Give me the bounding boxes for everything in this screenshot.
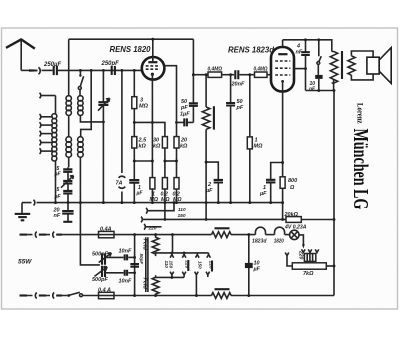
svg-text:µF: µF: [259, 191, 267, 197]
wire gang bottom: [105, 272, 124, 274]
svg-text:110: 110: [178, 207, 186, 213]
capacitor 50pF a: [192, 39, 194, 103]
svg-text:RENS 1820: RENS 1820: [110, 44, 151, 54]
svg-text:RENS 1823d: RENS 1823d: [228, 45, 275, 55]
wire 1uF link: [271, 163, 283, 180]
wire heater tap line: [143, 218, 286, 220]
resistor mains dropper top: [212, 232, 232, 238]
svg-text:110: 110: [164, 261, 169, 269]
heater 1820: [266, 234, 275, 236]
node rail 80: [79, 201, 82, 204]
wire tap stub a: [42, 95, 56, 97]
ground: [21, 203, 23, 214]
node 3Mohm top: [133, 69, 136, 72]
fork board a: [302, 249, 306, 253]
plug ground: [34, 200, 35, 206]
wire signal line2: [193, 74, 208, 76]
resistor 0,2Mohm a: [162, 178, 167, 189]
wire tap stub c: [42, 124, 53, 126]
capacitor 10nF a: [125, 254, 127, 260]
wire screen column down: [333, 91, 335, 296]
transformer core: [341, 51, 343, 79]
tube1 cathode: [151, 73, 154, 76]
wire selector top: [156, 251, 209, 254]
wire coil bottoms: [69, 157, 81, 203]
svg-text:pF: pF: [54, 171, 62, 177]
node coil tap: [90, 69, 93, 72]
svg-text:0,4MΩ: 0,4MΩ: [208, 67, 223, 73]
svg-text:kΩ: kΩ: [180, 144, 188, 150]
svg-text:4V 0,23A: 4V 0,23A: [284, 224, 306, 230]
svg-text:µF: µF: [253, 267, 261, 273]
fork sel up b: [182, 272, 186, 278]
wire ground rail: [22, 202, 284, 204]
svg-text:München LG: München LG: [349, 129, 373, 210]
tube U2 RENS 1823d: [271, 47, 294, 92]
wire lamp out: [299, 235, 303, 245]
svg-text:1820: 1820: [274, 238, 284, 244]
node tuner top: [102, 69, 105, 72]
fork sel up c: [195, 272, 199, 296]
capacitor 10uF electrolytic: [248, 235, 250, 296]
antenna coil L1: [55, 96, 57, 115]
capacitor 50pF b: [230, 75, 232, 103]
svg-text:10nF: 10nF: [119, 249, 132, 255]
wire antenna stem: [20, 39, 22, 70]
wire antenna lead: [21, 69, 32, 71]
resistor 20kohm g2: [174, 137, 179, 148]
wire seg2: [165, 160, 177, 162]
transformer T1 secondary: [348, 56, 355, 75]
plug tap b: [40, 114, 41, 120]
svg-text:20kΩ: 20kΩ: [283, 212, 298, 218]
fork board c: [315, 249, 319, 253]
wire tube1 anode pin: [152, 39, 154, 61]
capacitor 20nF mains: [67, 203, 69, 211]
node rail 68: [67, 201, 70, 204]
switch tone: [318, 40, 320, 57]
capacitor 50pF pad: [134, 235, 136, 296]
resistor 0,4Mohm a: [208, 72, 222, 77]
resistor 1Mohm grid2: [249, 75, 251, 137]
plug tap c: [40, 122, 41, 128]
capacitor 10nF b: [125, 270, 127, 276]
resistor field bottom: [152, 275, 159, 295]
tap 220 stub: [146, 226, 162, 228]
svg-text:220: 220: [148, 225, 157, 231]
wire tube1 grid lead: [163, 66, 176, 123]
plug tap f: [40, 148, 41, 154]
svg-text:0,4A: 0,4A: [100, 227, 112, 233]
svg-text:1823d: 1823d: [252, 238, 267, 244]
speaker: [367, 57, 379, 74]
svg-text:150: 150: [198, 261, 203, 269]
resistor 20kohm: [286, 217, 301, 223]
wire selector bottom: [156, 276, 185, 278]
resistor field top: [152, 235, 159, 257]
node fuse top: [120, 69, 123, 72]
svg-text:pF: pF: [180, 105, 188, 111]
node rail right: [205, 201, 208, 204]
capacitor 1uF grid: [177, 121, 194, 123]
svg-text:800: 800: [288, 178, 297, 184]
svg-text:0,4 A: 0,4 A: [98, 287, 111, 293]
node rail 103: [102, 201, 105, 204]
wire gang top: [105, 256, 124, 258]
svg-text:0,4MΩ: 0,4MΩ: [254, 67, 268, 73]
trimmer C var 103: [102, 70, 104, 101]
fuse 7A: [121, 70, 123, 173]
svg-text:MΩ: MΩ: [254, 144, 264, 150]
svg-text:Ω: Ω: [289, 185, 295, 191]
tube2 anode bar: [278, 53, 287, 55]
svg-text:MΩ: MΩ: [150, 197, 159, 203]
capacitor tuning 500pF a: [80, 203, 100, 265]
wire seg1: [134, 160, 152, 162]
fuse 0,4A bottom: [99, 292, 115, 298]
svg-text:Lorenz: Lorenz: [356, 103, 366, 124]
node grid cap: [175, 121, 178, 124]
svg-text:150: 150: [178, 213, 186, 219]
wire tap stub d: [42, 133, 53, 135]
fork sel b: [182, 253, 186, 258]
resistor 3Mohm: [133, 70, 135, 96]
capacitor 1uF cathode: [129, 180, 139, 183]
fork board b: [308, 249, 312, 253]
resistor 1Mohm: [150, 178, 155, 189]
coil L2b: [66, 137, 72, 143]
node rail 55: [54, 201, 57, 204]
plug tap d: [40, 131, 41, 137]
svg-text:nF: nF: [309, 87, 316, 93]
svg-text:pF: pF: [236, 105, 244, 111]
svg-text:5: 5: [57, 187, 60, 193]
capacitor 4nF: [305, 40, 307, 52]
svg-text:µF: µF: [136, 191, 144, 197]
wire selector vertical: [172, 235, 174, 253]
tube1 grids: [146, 65, 160, 67]
wire to tube1 grid: [58, 69, 142, 71]
capacitor 5pF a: [63, 169, 72, 172]
tube2 grids: [275, 60, 290, 62]
resistor mains dropper bottom: [212, 293, 232, 299]
tap 110/150 riser: [148, 203, 174, 211]
wire B+ rail left: [69, 38, 194, 40]
svg-text:nF: nF: [296, 50, 303, 56]
wire B+ rail right: [283, 40, 332, 52]
node switch top: [79, 69, 82, 72]
svg-text:55W: 55W: [18, 259, 32, 266]
capacitor 1uF out: [266, 180, 275, 183]
plug tap 110-150 line: [141, 217, 142, 223]
plug tap e: [40, 140, 41, 146]
fork sel up d: [206, 272, 210, 277]
resistor 0,4Mohm b: [255, 72, 268, 77]
svg-text:500pF: 500pF: [92, 277, 109, 283]
wire tap stub b: [42, 116, 53, 118]
svg-text:nF: nF: [54, 213, 61, 219]
svg-text:20nF: 20nF: [231, 82, 245, 88]
plug mains A2: [53, 232, 54, 238]
coil L3b: [78, 137, 84, 143]
wire coil tap link: [81, 70, 92, 137]
wire mains line B: [20, 294, 28, 296]
plug mains A1: [35, 232, 36, 238]
wire secondary loop: [351, 51, 373, 80]
capacitor 10nF block: [315, 75, 322, 79]
svg-text:50pF: 50pF: [139, 254, 144, 265]
svg-text:250pF: 250pF: [101, 61, 120, 67]
coil L2a: [66, 96, 71, 101]
wire cathode column: [151, 80, 153, 178]
switch S1: [79, 70, 81, 75]
lamp 4V 0,23A: [285, 234, 290, 236]
wire tube2 cathode column: [282, 92, 284, 219]
plug antenna: [29, 69, 38, 71]
capacitor 250pF: [112, 66, 115, 75]
field coil core: [146, 237, 148, 292]
resistor 2,5kohm: [132, 137, 137, 148]
wire to grid cap: [42, 69, 53, 71]
wire tube2 top pin: [282, 40, 284, 47]
plug tap a: [40, 93, 41, 99]
heater 1823d: [231, 234, 255, 236]
plug mains B1: [35, 293, 36, 299]
capacitor 2uF: [214, 180, 223, 183]
resistor 7kohm: [292, 263, 326, 269]
potentiometer zigzag: [205, 75, 207, 107]
capacitor 5pF b: [63, 191, 72, 194]
capacitor 250uF: [54, 66, 57, 75]
trimmer arrow cap: [63, 181, 72, 184]
svg-text:7A: 7A: [116, 181, 123, 187]
wire mains line A: [20, 234, 28, 236]
svg-text:µF: µF: [205, 188, 213, 194]
svg-text:Feld: Feld: [142, 278, 148, 290]
wire HF column: [68, 39, 70, 96]
fork heater left: [285, 253, 289, 256]
wire anode out: [294, 68, 305, 70]
svg-text:7kΩ: 7kΩ: [303, 271, 314, 277]
coil L3a: [78, 96, 83, 101]
fork sel d: [207, 253, 211, 258]
wire between coils: [68, 115, 70, 137]
capacitor 20nF coupling: [235, 70, 238, 79]
resistor 800ohm: [280, 177, 285, 189]
fork sel c: [196, 253, 200, 258]
fuse 0,4A top: [99, 231, 115, 237]
wire 2uF link: [206, 162, 218, 180]
svg-text:10nF: 10nF: [119, 279, 132, 285]
svg-text:kΩ: kΩ: [153, 144, 161, 150]
plug mains B2: [53, 293, 54, 299]
resistor 0,2Mohm b: [174, 178, 179, 189]
selector board: [304, 254, 315, 262]
transformer T1 primary: [330, 52, 337, 84]
tube U1 RENS 1820: [142, 57, 165, 80]
node rail mid: [120, 201, 123, 204]
wire tap stub e: [42, 142, 53, 144]
fork sel a: [170, 253, 174, 258]
resistor 30kohm: [162, 137, 167, 148]
svg-text:150: 150: [169, 261, 174, 269]
fork sel up a: [170, 272, 174, 278]
svg-text:1µF: 1µF: [180, 112, 190, 118]
svg-text:Feld: Feld: [142, 239, 148, 251]
switch mains: [67, 294, 70, 297]
svg-text:250µF: 250µF: [43, 62, 61, 68]
antenna: [6, 39, 35, 48]
wire tap stub f: [42, 150, 53, 152]
wire link k-line: [133, 122, 165, 136]
svg-text:pF: pF: [54, 194, 62, 200]
capacitor tuning 500pF b: [102, 266, 105, 277]
svg-text:MΩ: MΩ: [139, 104, 149, 110]
wire bottom link: [306, 90, 335, 92]
svg-text:kΩ: kΩ: [139, 144, 147, 150]
